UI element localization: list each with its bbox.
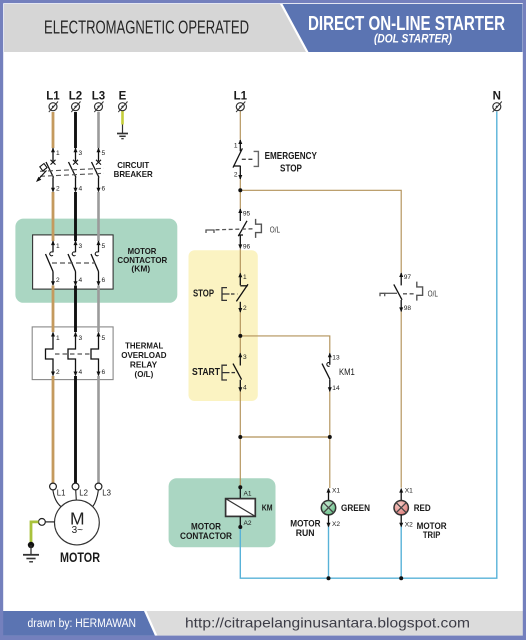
motor earth terminal bbox=[45, 521, 54, 523]
wire L3 phase (gray) bbox=[97, 112, 100, 483]
circuit breaker Q1 pole 3 bbox=[92, 148, 102, 193]
terminal L2 bbox=[71, 102, 80, 113]
svg-text:CONTACTOR: CONTACTOR bbox=[180, 531, 233, 541]
junction node start bypass left bbox=[238, 435, 242, 439]
contactor KM pole 3 bbox=[91, 240, 101, 286]
svg-text:O/L: O/L bbox=[428, 288, 439, 298]
motor terminal L3 bbox=[95, 483, 102, 490]
coil lead top bbox=[239, 487, 241, 498]
junction node green lamp on bus bbox=[327, 576, 331, 580]
svg-text:RUN: RUN bbox=[296, 528, 315, 538]
O/L 95 heater element bbox=[256, 219, 262, 238]
svg-text:3: 3 bbox=[79, 150, 83, 157]
junction node below emergency stop bbox=[238, 188, 242, 192]
svg-text:A1: A1 bbox=[244, 491, 252, 498]
O/L 97 heater element bbox=[417, 282, 423, 301]
wire O/L trip branch bbox=[400, 312, 402, 488]
svg-text:MOTOR: MOTOR bbox=[191, 521, 222, 531]
O/L 95 linkage dashed bbox=[216, 229, 254, 230]
start pushbutton NO bbox=[233, 353, 242, 392]
motor lead 3 bbox=[93, 490, 99, 507]
wire red lamp to bus bbox=[400, 524, 402, 578]
svg-text:4: 4 bbox=[243, 385, 247, 392]
highlight box KM coil bbox=[169, 478, 276, 547]
terminal E bbox=[118, 102, 127, 113]
svg-text:(KM): (KM) bbox=[131, 264, 150, 274]
svg-text:START: START bbox=[192, 367, 220, 378]
terminal L1 control bbox=[236, 102, 245, 113]
ground symbol E bbox=[117, 134, 128, 139]
header gray band bbox=[4, 4, 306, 52]
contactor KM pole 2 bbox=[68, 240, 78, 286]
circuit breaker Q1 pole 2 bbox=[69, 148, 79, 193]
svg-text:3~: 3~ bbox=[72, 525, 84, 536]
svg-text:L1: L1 bbox=[46, 90, 60, 102]
emergency stop pushbutton NC bbox=[233, 139, 242, 179]
circuit breaker handle bbox=[39, 164, 47, 179]
wire E earth (yellow-green) bbox=[121, 111, 124, 125]
terminal N bbox=[493, 102, 502, 113]
svg-text:2: 2 bbox=[243, 305, 247, 312]
svg-text:MOTOR: MOTOR bbox=[290, 518, 321, 528]
thermal overload relay box bbox=[32, 327, 113, 380]
start button actuator bbox=[222, 365, 230, 380]
svg-text:3: 3 bbox=[243, 354, 247, 361]
motor earth wire (yellow-green) bbox=[31, 522, 39, 545]
svg-text:X2: X2 bbox=[405, 521, 413, 528]
red lamp H2 lead bottom bbox=[399, 515, 403, 528]
svg-text:2: 2 bbox=[234, 171, 238, 178]
motor lead 2 bbox=[75, 490, 78, 500]
svg-text:95: 95 bbox=[243, 210, 251, 217]
svg-text:(O/L): (O/L) bbox=[135, 369, 154, 379]
svg-text:4: 4 bbox=[79, 277, 83, 284]
motor earth junction bbox=[28, 542, 34, 548]
svg-text:L1: L1 bbox=[234, 90, 248, 102]
svg-text:2: 2 bbox=[56, 186, 60, 193]
coil lead bottom bbox=[239, 516, 241, 527]
svg-text:L3: L3 bbox=[92, 90, 105, 102]
junction node stop-start bbox=[238, 334, 242, 338]
wire L1 phase (tan) bbox=[52, 112, 55, 483]
svg-text:EMERGENCY: EMERGENCY bbox=[265, 151, 318, 162]
svg-text:L1: L1 bbox=[57, 489, 66, 498]
svg-text:L2: L2 bbox=[69, 90, 82, 102]
svg-text:2: 2 bbox=[56, 277, 60, 284]
footer blue box bbox=[3, 611, 155, 636]
svg-text:GREEN: GREEN bbox=[341, 503, 370, 513]
wire green lamp to bus bbox=[328, 524, 330, 578]
svg-text:4: 4 bbox=[79, 369, 83, 376]
svg-text:14: 14 bbox=[332, 385, 340, 392]
svg-text:5: 5 bbox=[102, 243, 106, 250]
svg-text:96: 96 bbox=[243, 244, 251, 251]
svg-text:E: E bbox=[119, 90, 127, 102]
circuit breaker linkage dashed bbox=[40, 168, 104, 176]
svg-text:13: 13 bbox=[332, 354, 340, 361]
svg-text:RED: RED bbox=[414, 503, 431, 513]
O/L 97 linkage dashed bbox=[385, 292, 397, 294]
wire start bypass branch KM1 bbox=[240, 336, 329, 488]
svg-text:TRIP: TRIP bbox=[423, 530, 440, 540]
wire neutral bus (light blue) bbox=[240, 112, 497, 579]
svg-text:X2: X2 bbox=[332, 521, 340, 528]
junction node red lamp on bus bbox=[399, 576, 403, 580]
terminal L3 bbox=[94, 102, 103, 113]
green lamp H1 lead top bbox=[327, 488, 331, 501]
motor M1 circle bbox=[55, 500, 100, 545]
overload element pole 1 bbox=[46, 332, 56, 376]
svg-text:STOP: STOP bbox=[280, 164, 302, 175]
junction node A2 bbox=[238, 525, 242, 529]
ground symbol motor bbox=[23, 555, 39, 562]
start actuator linkage dashed bbox=[232, 372, 237, 374]
svg-text:1: 1 bbox=[243, 274, 247, 281]
motor ground lead bbox=[30, 545, 32, 555]
svg-text:5: 5 bbox=[102, 335, 106, 342]
svg-text:L3: L3 bbox=[102, 489, 111, 498]
junction node start bypass right bbox=[328, 435, 332, 439]
green lamp H1 bbox=[321, 501, 335, 515]
svg-text:1: 1 bbox=[234, 143, 238, 150]
circuit breaker handle arrowhead bbox=[36, 177, 41, 182]
svg-text:X1: X1 bbox=[405, 488, 413, 495]
svg-text:STOP: STOP bbox=[193, 288, 214, 299]
motor terminal L1 bbox=[50, 483, 57, 490]
stop button actuator bbox=[222, 288, 230, 301]
overload linkage dashed bbox=[55, 353, 91, 355]
stop actuator linkage dashed bbox=[231, 293, 238, 295]
emergency stop linkage dashed bbox=[242, 158, 253, 160]
svg-text:6: 6 bbox=[102, 369, 106, 376]
svg-text:N: N bbox=[493, 90, 501, 102]
contactor KM main box bbox=[33, 235, 114, 289]
svg-text:97: 97 bbox=[404, 274, 412, 281]
svg-text:X1: X1 bbox=[332, 488, 340, 495]
svg-text:3: 3 bbox=[79, 335, 83, 342]
O/L auxiliary NC contact 95-96 bbox=[238, 208, 247, 249]
contactor coil KM bbox=[226, 499, 256, 517]
terminal L1 bbox=[49, 102, 58, 113]
svg-text:O/L: O/L bbox=[270, 224, 281, 234]
svg-text:RELAY: RELAY bbox=[130, 359, 158, 369]
earth lead to ground symbol bbox=[122, 125, 124, 134]
svg-text:ELECTROMAGNETIC OPERATED: ELECTROMAGNETIC OPERATED bbox=[44, 17, 249, 38]
overload element pole 2 bbox=[68, 332, 78, 376]
svg-text:6: 6 bbox=[102, 277, 106, 284]
svg-text:98: 98 bbox=[404, 305, 412, 312]
green lamp H1 lead bottom bbox=[327, 515, 331, 528]
emergency stop mushroom head bbox=[254, 151, 259, 166]
svg-text:MOTOR: MOTOR bbox=[60, 550, 100, 565]
O/L 95 trip paddle bbox=[206, 230, 214, 233]
circuit breaker Q1 pole 1 bbox=[46, 148, 56, 193]
footer gray box bbox=[147, 611, 524, 636]
red lamp H2 bbox=[394, 501, 408, 515]
red lamp H2 lead top bbox=[399, 488, 403, 501]
O/L 97 trip paddle bbox=[380, 293, 385, 296]
overload element pole 3 bbox=[91, 332, 101, 376]
svg-text:3: 3 bbox=[79, 243, 83, 250]
svg-text:BREAKER: BREAKER bbox=[114, 169, 153, 179]
O/L trip contact NO 97-98 bbox=[394, 272, 403, 312]
junction node A1 bbox=[238, 485, 242, 489]
header blue box bbox=[283, 4, 523, 52]
svg-text:6: 6 bbox=[102, 186, 106, 193]
wire node after emergency stop bbox=[240, 190, 401, 272]
motor lead 1 bbox=[53, 490, 61, 507]
svg-text:1: 1 bbox=[56, 243, 60, 250]
stop pushbutton NC bbox=[236, 273, 248, 313]
svg-text:2: 2 bbox=[56, 369, 60, 376]
svg-text:1: 1 bbox=[56, 150, 60, 157]
svg-text:5: 5 bbox=[102, 150, 106, 157]
motor terminal L2 bbox=[72, 483, 79, 490]
wire L2 phase (black) bbox=[74, 112, 77, 483]
contactor KM pole 1 bbox=[46, 240, 56, 286]
svg-text:L2: L2 bbox=[79, 489, 88, 498]
svg-text:A2: A2 bbox=[244, 520, 252, 527]
svg-text:KM: KM bbox=[262, 503, 273, 513]
svg-text:1: 1 bbox=[56, 335, 60, 342]
svg-text:KM1: KM1 bbox=[339, 367, 355, 377]
KM1 auxiliary contact NO bbox=[322, 353, 332, 392]
svg-text:4: 4 bbox=[79, 186, 83, 193]
highlight box motor contactor KM bbox=[15, 219, 177, 303]
svg-text:(DOL STARTER): (DOL STARTER) bbox=[374, 32, 452, 46]
svg-text:http://citrapelanginusantara.b: http://citrapelanginusantara.blogspot.co… bbox=[185, 615, 470, 631]
highlight box stop-start bbox=[189, 250, 258, 401]
control wire L1 vertical (tan) bbox=[239, 111, 241, 488]
svg-text:drawn by: HERMAWAN: drawn by: HERMAWAN bbox=[28, 618, 137, 630]
contactor linkage dashed bbox=[52, 262, 96, 264]
